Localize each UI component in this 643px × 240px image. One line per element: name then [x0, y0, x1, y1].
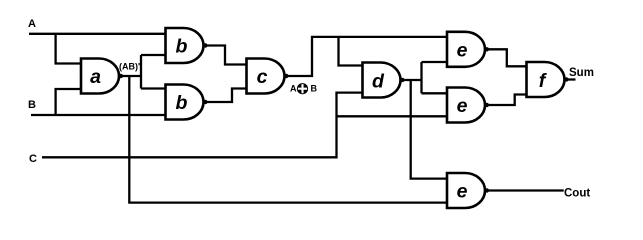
svg-text:c: c: [257, 66, 268, 88]
svg-text:a: a: [90, 66, 101, 88]
svg-text:A: A: [28, 18, 36, 30]
svg-text:e: e: [457, 39, 468, 61]
svg-text:d: d: [372, 71, 385, 93]
svg-text:B: B: [311, 84, 318, 94]
svg-text:A: A: [290, 84, 297, 94]
svg-text:Cout: Cout: [564, 188, 590, 200]
svg-text:(AB)': (AB)': [119, 62, 140, 72]
svg-text:C: C: [29, 153, 37, 165]
svg-text:e: e: [457, 95, 468, 117]
svg-text:b: b: [176, 92, 188, 114]
svg-text:Sum: Sum: [569, 67, 594, 79]
svg-text:B: B: [28, 99, 36, 111]
svg-text:b: b: [176, 36, 188, 58]
svg-text:e: e: [457, 181, 468, 203]
